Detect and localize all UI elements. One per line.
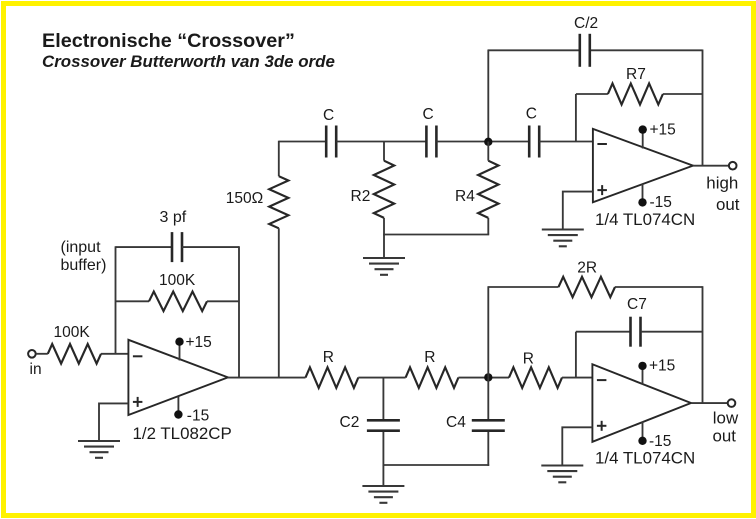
supply dot -15 U3: [638, 437, 646, 445]
wire ground stem C2: [382, 465, 384, 486]
resistor R7: [608, 84, 663, 105]
svg-text:+15: +15: [650, 121, 676, 138]
wire 2R left: [488, 286, 558, 288]
ground at U2 non-inverting input: [542, 230, 584, 247]
wire U3 output: [691, 402, 728, 404]
junction node A: [484, 138, 492, 146]
wire ground rail C2-C4: [383, 464, 490, 466]
wire feedback left vertical: [115, 246, 117, 353]
supply dot -15 U1: [174, 410, 182, 418]
wire junction to R2: [383, 142, 385, 161]
svg-text:C/2: C/2: [574, 15, 598, 32]
resistor R4: [478, 161, 498, 218]
svg-text:R: R: [323, 349, 334, 366]
svg-text:R: R: [424, 349, 435, 366]
wire right vertical to high output node: [702, 50, 704, 167]
terminal low out: [728, 399, 736, 407]
resistor 150Ω: [269, 176, 288, 228]
wire C7 left: [576, 331, 631, 333]
wire -15 stem U1: [177, 397, 179, 415]
capacitor C7: [631, 317, 641, 347]
ground at U3 non-inverting input: [541, 466, 583, 483]
wire U3 non-inverting to ground: [562, 427, 592, 465]
wire junction to R4: [487, 142, 489, 161]
svg-text:+15: +15: [186, 334, 212, 351]
wire to C third: [436, 141, 529, 143]
wire U2 output: [693, 165, 729, 167]
svg-text:C7: C7: [627, 296, 647, 313]
op-amp U1 buffer 1/2 TL082CP: [128, 340, 228, 415]
capacitor 3 pf: [172, 232, 182, 262]
wire ground stem R2: [383, 235, 385, 259]
svg-text:100K: 100K: [159, 272, 196, 289]
svg-text:out: out: [716, 195, 740, 214]
wire right vertical to low output node: [702, 286, 704, 403]
svg-text:1/4 TL074CN: 1/4 TL074CN: [595, 210, 695, 229]
wire 3pf left: [116, 246, 173, 248]
wire top feedback left (node A to C/2): [488, 49, 580, 51]
supply dot -15 U2: [638, 198, 646, 206]
svg-text:R7: R7: [626, 66, 646, 83]
resistor R (second): [406, 367, 459, 388]
svg-text:in: in: [30, 361, 42, 378]
svg-text:+15: +15: [649, 358, 675, 375]
subtitle: [42, 52, 335, 72]
wire C4 to ground rail: [487, 432, 489, 466]
capacitor C (second): [426, 126, 436, 158]
svg-text:buffer): buffer): [61, 257, 107, 274]
capacitor C (third): [529, 126, 539, 158]
wire in to 100K: [36, 353, 48, 355]
svg-text:C: C: [323, 107, 334, 124]
ground below C2/C4: [362, 486, 404, 503]
supply dot +15 U2: [639, 125, 647, 133]
wire 150R down to buffer output net: [278, 228, 280, 378]
wire node B up to 2R: [487, 286, 489, 377]
wire +15 stem U2: [642, 130, 644, 149]
svg-text:-15: -15: [187, 408, 209, 425]
svg-text:out: out: [713, 427, 737, 446]
svg-text:150Ω: 150Ω: [226, 190, 263, 207]
svg-text:high: high: [706, 174, 738, 193]
wire buffer output: [228, 377, 306, 379]
wire C7 to inverting input: [575, 332, 577, 378]
svg-text:low: low: [713, 409, 739, 428]
wire top feedback right (C/2 to output net): [590, 49, 703, 51]
wire R7 to inverting input: [575, 94, 577, 142]
wire U2 non-inverting to ground: [563, 192, 593, 230]
capacitor C2: [367, 420, 400, 430]
wire C to C second: [336, 141, 426, 143]
wire R to R: [358, 377, 405, 379]
svg-text:3 pf: 3 pf: [160, 209, 187, 226]
wire -15 stem U2: [642, 184, 644, 202]
capacitor C4: [472, 420, 505, 430]
wire R2 to ground rail: [383, 218, 385, 236]
svg-text:(input: (input: [61, 239, 102, 256]
resistor R (first): [306, 367, 359, 388]
supply dot +15 U1: [175, 338, 183, 346]
op-amp U2 high-pass 1/4 TL074CN: [593, 129, 693, 202]
svg-text:C: C: [423, 106, 434, 123]
wire U1 non-inverting to ground: [99, 403, 128, 441]
wire feedback right vertical: [238, 246, 240, 378]
wire node B to C4: [487, 377, 489, 419]
wire C third to op-amp U2 inverting input: [539, 141, 593, 143]
wire R third to U3 inverting input: [562, 377, 592, 379]
wire R4 to ground rail: [487, 218, 489, 235]
svg-text:C4: C4: [446, 414, 466, 431]
capacitor C/2: [580, 34, 590, 67]
ground at U1 non-inverting input: [78, 441, 120, 458]
svg-text:R4: R4: [455, 188, 475, 205]
svg-text:-15: -15: [650, 194, 672, 211]
wire junction to C2: [382, 378, 384, 420]
wire C2 to ground rail: [382, 432, 384, 466]
resistor R2: [374, 161, 394, 218]
wire R7 right: [663, 93, 703, 95]
svg-text:1/4 TL074CN: 1/4 TL074CN: [595, 448, 695, 467]
resistor 2R: [559, 277, 616, 297]
terminal in: [28, 350, 36, 358]
wire +15 stem U3: [642, 366, 644, 385]
svg-text:2R: 2R: [577, 259, 597, 276]
op-amp U3 low-pass 1/4 TL074CN: [592, 364, 691, 442]
resistor R (third): [509, 367, 562, 388]
resistor 100K feedback: [149, 292, 207, 312]
wire 100K feedback left: [116, 300, 150, 302]
wire corner down to 150R: [278, 141, 280, 177]
terminal high out: [729, 162, 737, 170]
capacitor C (first): [326, 126, 336, 158]
wire C7 right: [641, 331, 703, 333]
svg-text:R2: R2: [351, 188, 371, 205]
supply dot +15 U3: [638, 362, 646, 370]
svg-text:1/2 TL082CP: 1/2 TL082CP: [133, 424, 232, 443]
wire 3pf right: [182, 246, 239, 248]
wire vertical node A down to junction: [487, 50, 489, 143]
title: [42, 30, 295, 53]
wire 2R right: [615, 286, 703, 288]
svg-text:C: C: [526, 105, 537, 122]
wire 100K to U1 inverting input: [101, 353, 128, 355]
svg-text:C2: C2: [340, 414, 360, 431]
wire to C first: [279, 141, 326, 143]
wire ground rail R2-R4: [383, 234, 489, 236]
resistor 100K input: [48, 344, 101, 364]
wire to R third: [458, 377, 509, 379]
svg-text:R: R: [523, 350, 534, 367]
junction node B: [484, 373, 492, 381]
wire -15 stem U3: [642, 422, 644, 441]
svg-text:100K: 100K: [54, 324, 91, 341]
ground below R2: [363, 258, 405, 275]
wire +15 stem U1: [179, 342, 181, 361]
wire R7 left: [576, 93, 608, 95]
wire 100K feedback right: [207, 300, 239, 302]
